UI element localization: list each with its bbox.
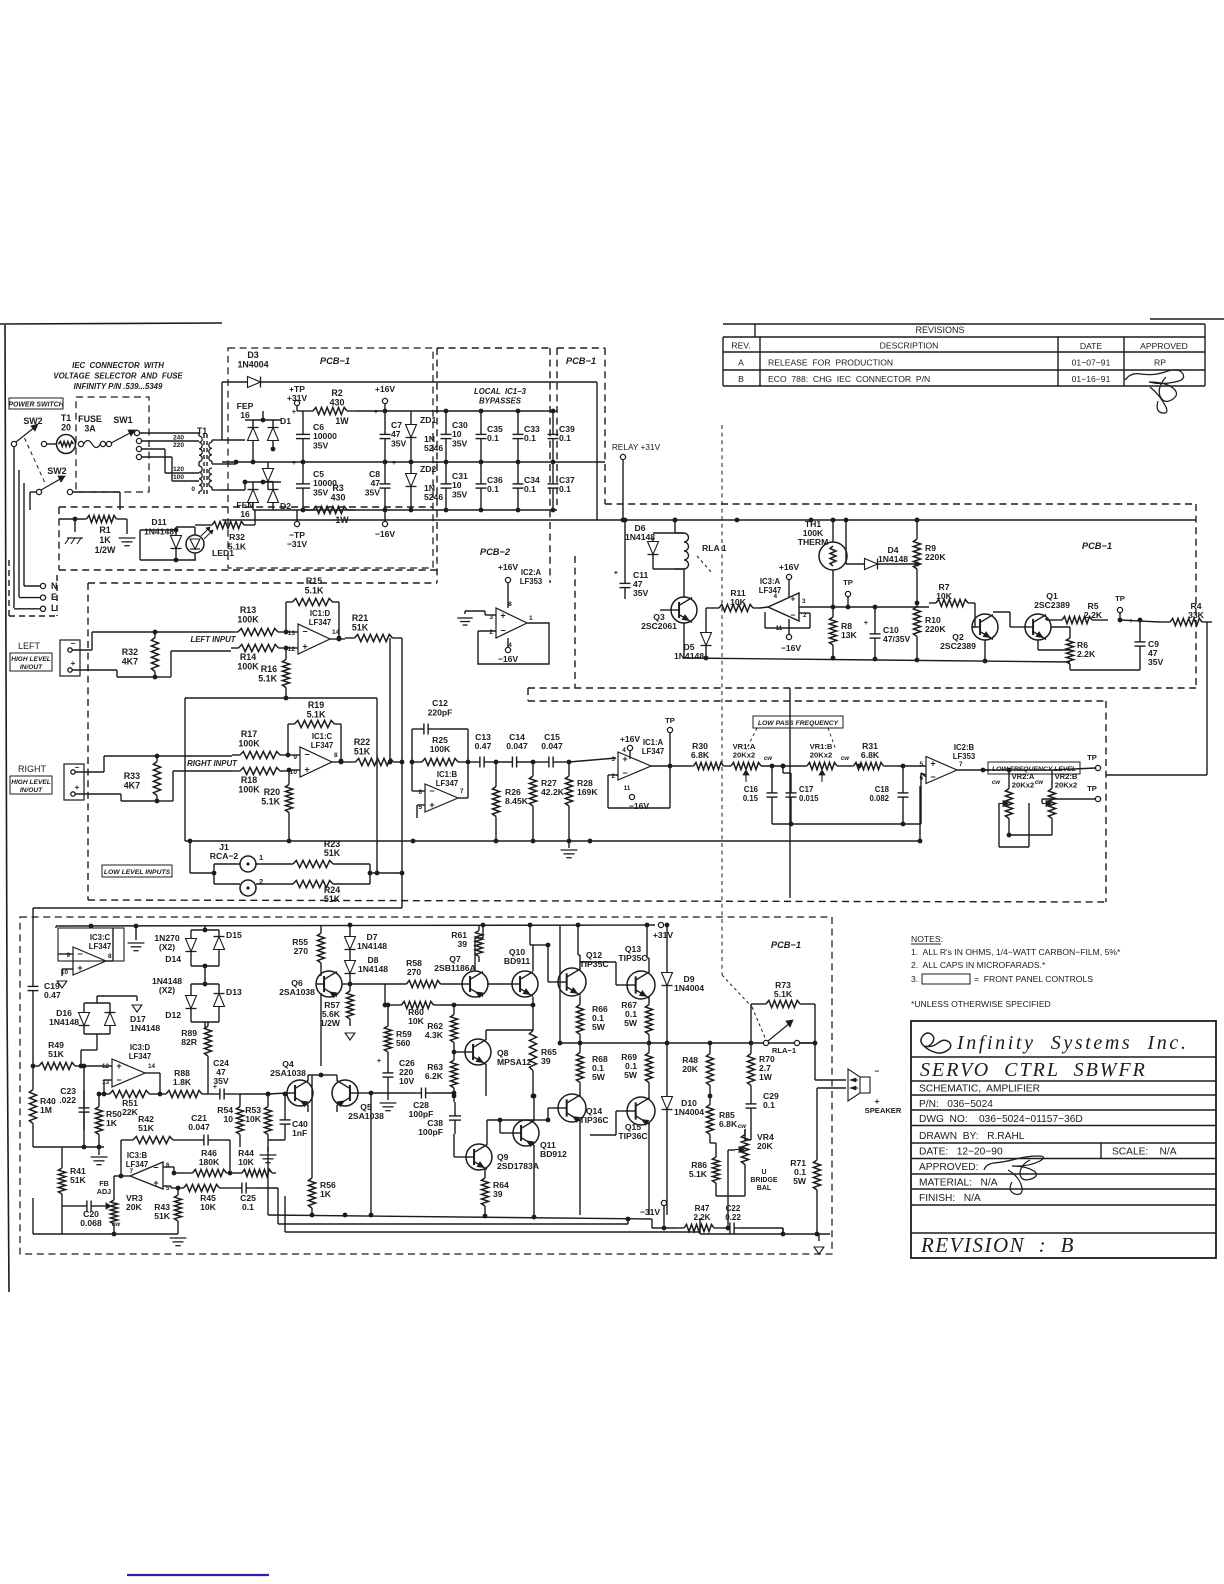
- svg-text:4.3K: 4.3K: [425, 1030, 444, 1040]
- svg-text:3: 3: [611, 756, 615, 763]
- title SERVO CTRL SBWFR: [920, 1059, 1147, 1081]
- svg-text:+16V: +16V: [375, 384, 396, 394]
- svg-text:5W: 5W: [592, 1022, 606, 1032]
- transistor Q9 2SD1783A: [454, 1120, 539, 1171]
- svg-text:2: 2: [489, 629, 493, 636]
- svg-text:35V: 35V: [452, 438, 468, 448]
- svg-text:−16V: −16V: [629, 801, 650, 811]
- rail -16V long: [222, 518, 1196, 523]
- svg-text:1N4148: 1N4148: [130, 1023, 160, 1033]
- svg-text:−: −: [429, 786, 434, 796]
- svg-text:+16V: +16V: [620, 734, 641, 744]
- svg-text:REVISIONS: REVISIONS: [915, 325, 964, 335]
- svg-text:100: 100: [173, 474, 184, 481]
- capacitor C35 0.1: [476, 411, 503, 462]
- feedback wires long: [278, 1188, 700, 1234]
- svg-text:35V: 35V: [452, 489, 468, 499]
- transformer T1 primary: [173, 426, 207, 494]
- svg-text:0.15: 0.15: [743, 794, 759, 803]
- ground symbol filter rail: [561, 841, 578, 858]
- dashed strip PCB-1 right: [557, 348, 605, 505]
- svg-text:+: +: [435, 407, 440, 416]
- svg-text:PCB−1: PCB−1: [320, 356, 350, 366]
- transistor Q10 BD911: [487, 925, 538, 997]
- diode network 1N4148 D12 D13: [152, 976, 242, 1028]
- svg-text:4K7: 4K7: [124, 780, 140, 790]
- svg-text:2SD1783A: 2SD1783A: [497, 1161, 539, 1171]
- label LOCAL IC1-3 BYPASSES: [474, 387, 527, 406]
- test point TP (output): [1115, 594, 1125, 622]
- svg-text:DRAWN BY: R.RAHL: DRAWN BY: R.RAHL: [919, 1131, 1025, 1142]
- terminal -31V: [640, 1200, 667, 1230]
- label FB ADJ: [97, 1179, 111, 1196]
- capacitor C29 0.1: [746, 1091, 779, 1140]
- svg-text:1M: 1M: [40, 1105, 52, 1115]
- resistor R28 169K: [565, 762, 598, 841]
- svg-text:FINISH: N/A: FINISH: N/A: [919, 1193, 981, 1204]
- relay coil RLA 1: [653, 518, 727, 573]
- svg-text:RIGHT INPUT: RIGHT INPUT: [187, 759, 238, 768]
- capacitor C36 0.1: [476, 462, 503, 510]
- capacitor C6 10000 35V: [292, 407, 337, 462]
- bridge FEN 16 label: [236, 500, 253, 519]
- capacitor C26 220 10V: [377, 1056, 415, 1111]
- resistor R19 5.1K feedback: [286, 700, 344, 763]
- page border top-right segment: [1150, 318, 1224, 320]
- svg-text:20: 20: [61, 422, 71, 432]
- test point TP (IC3:A out): [817, 578, 929, 609]
- svg-text:430: 430: [331, 492, 346, 502]
- svg-text:−: −: [791, 610, 796, 620]
- svg-text:35V: 35V: [633, 588, 649, 598]
- svg-text:IC3:C: IC3:C: [90, 933, 111, 942]
- svg-text:−31V: −31V: [287, 539, 308, 549]
- svg-text:IC2:A: IC2:A: [521, 568, 542, 577]
- svg-text:D13: D13: [226, 987, 242, 997]
- svg-text:35V: 35V: [391, 438, 407, 448]
- svg-text:SERVO CTRL SBWFR: SERVO CTRL SBWFR: [920, 1059, 1147, 1081]
- resistor R11 10K: [706, 588, 760, 627]
- transistor Q12 TIP35C: [533, 925, 609, 996]
- svg-text:20Kx2: 20Kx2: [1012, 781, 1034, 790]
- svg-text:220: 220: [173, 442, 184, 449]
- svg-text:100pF: 100pF: [418, 1127, 443, 1137]
- resistor R66 0.1 5W: [576, 996, 608, 1043]
- title MATERIAL: [919, 1178, 998, 1189]
- resistor R13 100K: [230, 605, 286, 636]
- svg-text:SW2: SW2: [23, 416, 42, 426]
- svg-text:+: +: [292, 407, 297, 416]
- label LOW LEVEL INPUTS: [102, 865, 172, 877]
- svg-text:0.47: 0.47: [44, 990, 61, 1000]
- terminal +16V (supply): [375, 384, 396, 411]
- svg-text:0.47: 0.47: [475, 741, 492, 751]
- wire driver mid rail R60: [383, 984, 395, 1007]
- svg-text:LEFT INPUT: LEFT INPUT: [190, 635, 236, 644]
- svg-text:10K: 10K: [200, 1202, 217, 1212]
- capacitor C40 1nF: [268, 1092, 308, 1140]
- svg-text:HIGH LEVEL: HIGH LEVEL: [11, 779, 51, 786]
- svg-text:20K: 20K: [682, 1064, 699, 1074]
- svg-text:−16V: −16V: [375, 529, 396, 539]
- svg-text:51K: 51K: [352, 622, 369, 632]
- capacitor C28 100pF: [409, 1088, 457, 1120]
- rail +31V amp top: [56, 923, 655, 929]
- label LEFT INPUT: [190, 635, 236, 644]
- resistor R57 5.6K 1/2W: [320, 984, 354, 1028]
- svg-text:1N4148: 1N4148: [878, 554, 908, 564]
- svg-text:+: +: [392, 458, 397, 467]
- svg-text:SPEAKER: SPEAKER: [865, 1106, 902, 1115]
- resistor R65 39: [529, 1003, 557, 1096]
- svg-text:BRIDGE: BRIDGE: [750, 1177, 778, 1184]
- svg-text:R1: R1: [99, 525, 110, 535]
- svg-text:+: +: [377, 1056, 382, 1065]
- svg-text:PCB−1: PCB−1: [566, 356, 596, 366]
- svg-text:01−07−91: 01−07−91: [1072, 358, 1111, 368]
- bottom rail amp left: [33, 1198, 178, 1236]
- diode D3 1N4004: [222, 350, 597, 440]
- svg-text:6.8K: 6.8K: [719, 1119, 738, 1129]
- terminal -16V (supply): [375, 510, 396, 539]
- svg-text:7: 7: [129, 1168, 133, 1175]
- svg-text:6.2K: 6.2K: [425, 1071, 444, 1081]
- potentiometer VR1:B 20Kx2: [762, 742, 850, 782]
- svg-text:+: +: [374, 407, 379, 416]
- svg-text:13: 13: [288, 630, 296, 637]
- resistor R30 6.8K: [687, 741, 730, 770]
- svg-text:35V: 35V: [1148, 657, 1164, 667]
- terminal RELAY +31V: [612, 442, 661, 522]
- svg-text:TP: TP: [843, 578, 853, 587]
- svg-text:100K: 100K: [430, 744, 451, 754]
- capacitor C13 0.47: [468, 732, 498, 768]
- resistor R55 270: [292, 925, 324, 971]
- note IEC connector text: [53, 361, 183, 391]
- switch SW2 lower: [36, 466, 72, 495]
- svg-text:22K: 22K: [122, 1107, 139, 1117]
- resistor R46 180K: [189, 1148, 238, 1177]
- svg-text:D14: D14: [165, 954, 181, 964]
- transformer T1 core: [204, 434, 207, 494]
- wire low pass to amp feedback: [918, 688, 1207, 843]
- transistor Q7 2SB1186A: [434, 925, 488, 997]
- svg-text:RLA 1: RLA 1: [702, 543, 727, 553]
- svg-text:220pF: 220pF: [428, 707, 453, 717]
- resistor R5 2.2K: [1046, 601, 1108, 624]
- resistor R86 5.1K: [689, 1143, 745, 1196]
- svg-text:−: −: [153, 1163, 158, 1173]
- capacitor C34 0.1: [513, 462, 540, 510]
- svg-text:LF347: LF347: [129, 1052, 152, 1061]
- svg-text:B: B: [738, 374, 744, 384]
- svg-text:10K: 10K: [730, 597, 747, 607]
- svg-text:2. ALL CAPS IN MICROFARADS.*: 2. ALL CAPS IN MICROFARADS.*: [911, 960, 1046, 970]
- svg-text:47/35V: 47/35V: [883, 634, 911, 644]
- resistor R33 4K7: [124, 756, 161, 801]
- svg-text:1.8K: 1.8K: [173, 1077, 192, 1087]
- resistor R56 1K: [308, 1075, 336, 1217]
- svg-text:RP: RP: [1154, 358, 1166, 368]
- resistor R45 10K: [171, 1184, 232, 1212]
- resistor R47 2.2K: [676, 1204, 730, 1232]
- svg-text:SCALE: N/A: SCALE: N/A: [1112, 1147, 1177, 1158]
- resistor R32 5.1K (power): [208, 521, 248, 551]
- bridge input wires from transformer: [222, 440, 247, 490]
- label POWER SWITCH: [8, 398, 64, 409]
- svg-text:1K: 1K: [320, 1189, 332, 1199]
- svg-text:35V: 35V: [313, 440, 329, 450]
- svg-text:DATE: 12−20−90: DATE: 12−20−90: [919, 1147, 1003, 1158]
- svg-text:5: 5: [919, 761, 923, 768]
- test point TP IC1:A: [665, 716, 675, 766]
- dashed box middle low-level section: [88, 583, 1106, 902]
- svg-text:A: A: [738, 358, 744, 368]
- svg-text:D12: D12: [165, 1010, 181, 1020]
- svg-text:13K: 13K: [841, 630, 858, 640]
- svg-text:(X2): (X2): [159, 985, 175, 995]
- svg-text:IC1:A: IC1:A: [643, 738, 664, 747]
- logo Infinity scribble: [921, 1033, 951, 1053]
- potentiometer VR2:A 20Kx2: [983, 768, 1052, 826]
- svg-text:2SC2061: 2SC2061: [641, 621, 677, 631]
- diode network 1N270 D14 D15: [154, 926, 242, 986]
- dashed centre boundary vertical: [721, 425, 723, 975]
- resistor R69 0.1 5W: [621, 1043, 652, 1092]
- svg-text:LF347: LF347: [311, 741, 334, 750]
- svg-text:+: +: [875, 1096, 880, 1106]
- svg-text:6: 6: [166, 1162, 170, 1169]
- svg-text:POWER SWITCH: POWER SWITCH: [8, 402, 64, 409]
- svg-text:1. ALL R's IN OHMS, 1/4−WATT: 1. ALL R's IN OHMS, 1/4−WATT CARBON−FILM…: [911, 947, 1121, 957]
- resistor R26 8.45K: [492, 762, 528, 841]
- svg-text:PCB−2: PCB−2: [480, 547, 511, 557]
- svg-text:IN/OUT: IN/OUT: [20, 664, 43, 671]
- svg-text:5.1K: 5.1K: [228, 541, 247, 551]
- transistor Q1 2SC2389: [993, 591, 1070, 640]
- label LOW FREQUENCY LEVEL: [988, 762, 1080, 774]
- svg-text:0.068: 0.068: [80, 1218, 102, 1228]
- svg-text:cw: cw: [841, 755, 850, 762]
- resistor R70 2.7 1W: [747, 1043, 775, 1096]
- open arrow R57: [345, 1033, 355, 1040]
- terminal N: [24, 581, 57, 591]
- svg-text:51K: 51K: [48, 1049, 65, 1059]
- svg-text:−: −: [116, 1075, 121, 1085]
- svg-text:01−16−91: 01−16−91: [1072, 374, 1111, 384]
- svg-text:DWG NO: 036−5024−01157−36D: DWG NO: 036−5024−01157−36D: [919, 1114, 1083, 1125]
- ground top amp: [128, 924, 145, 951]
- svg-text:+: +: [75, 783, 80, 792]
- title block frame: [911, 1021, 1216, 1258]
- revisions table: [723, 324, 1205, 386]
- svg-text:TP: TP: [1115, 594, 1125, 603]
- capacitor C22 0.22: [722, 1204, 783, 1234]
- capacitor C23 .022: [59, 1064, 89, 1147]
- svg-text:cw: cw: [112, 1221, 121, 1228]
- resistor R1 1K 1/2W: [59, 515, 118, 555]
- title REVISION B: [920, 1233, 1075, 1257]
- resistor R85 6.8K: [706, 1094, 738, 1143]
- connector J1 RCA-2: [210, 842, 263, 896]
- svg-text:6.8K: 6.8K: [691, 750, 710, 760]
- wire IC3:B inverting node: [172, 1171, 189, 1176]
- svg-text:51K: 51K: [138, 1123, 155, 1133]
- svg-text:1N4148: 1N4148: [357, 941, 387, 951]
- svg-text:1N4148: 1N4148: [49, 1017, 79, 1027]
- feedback box IC2:A: [478, 623, 549, 664]
- svg-text:2SB1186A: 2SB1186A: [434, 963, 476, 973]
- wire VR4 wiper to R47 row: [728, 1150, 735, 1228]
- resistor R20 5.1K: [261, 768, 292, 844]
- svg-text:cw: cw: [738, 1123, 747, 1130]
- svg-text:SW2: SW2: [47, 466, 66, 476]
- open arrow bottom rail: [814, 1234, 824, 1254]
- zener ZD1 1N5246: [406, 411, 444, 462]
- capacitor C33 0.1: [513, 411, 540, 462]
- label LEFT: [18, 641, 41, 651]
- svg-text:TIP36C: TIP36C: [579, 1115, 608, 1125]
- svg-text:33K: 33K: [1188, 610, 1205, 620]
- transistor Q13 TIP35C: [580, 925, 655, 999]
- resistor R23 51K: [256, 839, 370, 868]
- svg-text:D2: D2: [280, 501, 291, 511]
- svg-text:7: 7: [460, 788, 464, 795]
- svg-text:20Kx2: 20Kx2: [810, 751, 832, 760]
- svg-text:*UNLESS OTHERWISE SPECIFIED: *UNLESS OTHERWISE SPECIFIED: [911, 999, 1051, 1009]
- svg-text:−16V: −16V: [498, 654, 519, 664]
- capacitor C20 0.068: [62, 1201, 102, 1229]
- svg-text:2SC2389: 2SC2389: [940, 641, 976, 651]
- page border top-left: [0, 323, 222, 1292]
- svg-text:DESCRIPTION: DESCRIPTION: [880, 341, 939, 351]
- svg-text:−: −: [875, 1066, 880, 1076]
- op-amp IC3:B LF347: [114, 1140, 174, 1192]
- svg-text:2SC2389: 2SC2389: [1034, 600, 1070, 610]
- svg-text:7: 7: [959, 761, 963, 768]
- svg-text:5W: 5W: [624, 1018, 638, 1028]
- wire C16/C17 bottoms: [772, 822, 905, 827]
- wire to IC1:A: [569, 758, 616, 762]
- open arrow ground IC3:C: [57, 981, 67, 988]
- svg-text:IC3:D: IC3:D: [130, 1043, 151, 1052]
- svg-text:APPROVED:: APPROVED:: [919, 1162, 978, 1173]
- svg-text:20K: 20K: [126, 1202, 143, 1212]
- wires left connector: [72, 630, 231, 680]
- resistor R64 39: [481, 1169, 509, 1215]
- svg-text:39: 39: [541, 1056, 551, 1066]
- terminal E: [19, 592, 57, 602]
- resistor R22 51K: [347, 737, 404, 766]
- capacitor C7 47 35V: [374, 407, 407, 462]
- notes text: [911, 934, 1121, 1009]
- svg-text:REVISION : B: REVISION : B: [920, 1233, 1075, 1257]
- diodes D16 D17 pair: [49, 996, 160, 1041]
- capacitor C10 47/35V: [864, 605, 911, 650]
- svg-text:+16V: +16V: [779, 562, 800, 572]
- transistor Q11 BD912: [498, 1094, 567, 1215]
- wire R4 feedback right edge: [1206, 622, 1208, 688]
- svg-text:0.015: 0.015: [799, 794, 819, 803]
- svg-text:+: +: [500, 611, 505, 621]
- svg-text:1: 1: [529, 615, 533, 622]
- title DRAWN BY: [919, 1131, 1025, 1142]
- resistor R7 10K: [929, 582, 975, 607]
- capacitor C9 47 35V: [1129, 616, 1164, 668]
- dashed strip PCB-2 top: [437, 348, 550, 583]
- connector left high level: [60, 639, 80, 676]
- resistor R89 82R: [181, 1022, 211, 1060]
- svg-text:ECO 788: CHG IEC CONNECTOR: ECO 788: CHG IEC CONNECTOR P/N: [768, 374, 930, 384]
- ground rail amp left: [33, 1145, 107, 1165]
- svg-text:10K: 10K: [238, 1157, 255, 1167]
- resistor R71 0.1 5W: [790, 1088, 820, 1234]
- resistor R4 33K: [1120, 601, 1212, 626]
- svg-text:THERM: THERM: [798, 537, 829, 547]
- svg-text:LF347: LF347: [436, 779, 459, 788]
- resistor R60 10K: [395, 997, 533, 1026]
- svg-text:20K: 20K: [757, 1141, 774, 1151]
- svg-text:IC2:B: IC2:B: [954, 743, 975, 752]
- wire VR3 top to IC3:B: [113, 1176, 115, 1196]
- resistor R18 100K: [232, 767, 288, 794]
- wires to speaker: [815, 1043, 846, 1088]
- op-amp IC1:C LF347: [288, 732, 347, 777]
- svg-text:5W: 5W: [793, 1176, 807, 1186]
- title APPROVED: [919, 1162, 978, 1173]
- svg-text:+: +: [292, 458, 297, 467]
- resistor R40 1M: [29, 1066, 56, 1147]
- svg-text:BYPASSES: BYPASSES: [479, 397, 522, 406]
- wire right inner vertical x790: [789, 688, 791, 898]
- svg-text:SW1: SW1: [113, 415, 132, 425]
- diode D9 1N4004: [662, 923, 705, 1046]
- resistor R16 5.1K: [258, 646, 289, 692]
- capacitor C18 0.082: [869, 764, 926, 824]
- svg-text:1W: 1W: [759, 1072, 773, 1082]
- transistor Q5 2SA1038: [321, 1075, 384, 1121]
- svg-text:RCA−2: RCA−2: [210, 851, 239, 861]
- svg-text:51K: 51K: [154, 1211, 171, 1221]
- capacitor C15 0.047: [533, 732, 571, 768]
- resistor R2 430 1W: [305, 388, 355, 426]
- capacitor C16 0.15: [743, 764, 778, 824]
- svg-text:−: −: [71, 639, 76, 648]
- svg-text:D15: D15: [226, 930, 242, 940]
- svg-text:120: 120: [173, 466, 184, 473]
- svg-text:1N4004: 1N4004: [674, 983, 704, 993]
- capacitor C17 0.015: [781, 764, 820, 824]
- transistor Q6 2SA1038: [279, 971, 350, 1066]
- svg-text:10K: 10K: [408, 1016, 425, 1026]
- svg-text:−: −: [622, 768, 627, 778]
- wire Q5 collector to C28 row: [369, 1091, 415, 1215]
- diode D11 1N4148: [144, 517, 182, 560]
- svg-text:+: +: [435, 458, 440, 467]
- capacitor C25 0.1: [232, 1183, 278, 1213]
- svg-text:−16V: −16V: [781, 643, 802, 653]
- svg-text:35V: 35V: [313, 487, 329, 497]
- rail 0V centre: [222, 460, 605, 465]
- svg-text:240: 240: [173, 435, 184, 442]
- svg-text:+: +: [614, 568, 619, 577]
- svg-text:+: +: [930, 758, 935, 768]
- svg-text:2SA1038: 2SA1038: [270, 1068, 306, 1078]
- svg-text:RELAY +31V: RELAY +31V: [612, 442, 661, 452]
- resistor R61 39: [451, 925, 482, 962]
- svg-text:N: N: [51, 581, 57, 591]
- svg-text:0.1: 0.1: [242, 1202, 254, 1212]
